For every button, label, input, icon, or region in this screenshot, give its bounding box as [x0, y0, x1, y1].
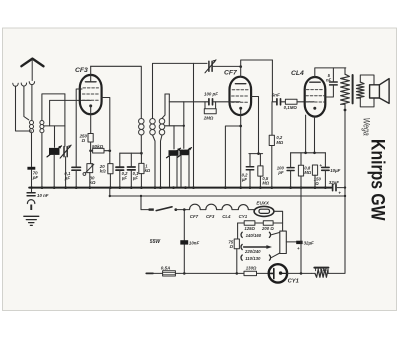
wire cap3 up [119, 153, 121, 167]
coil L2 antenna secondary [40, 120, 44, 132]
antenna terminal cup 1 [13, 83, 18, 86]
wire CL4 top lead [315, 68, 346, 77]
potentiometer 30k box [87, 164, 93, 173]
junction bus u [300, 186, 303, 189]
wire terminal3 down [31, 85, 33, 121]
wire secondary top [360, 75, 374, 85]
wire antenna lead [31, 60, 33, 81]
svg-text:125Ω: 125Ω [244, 226, 255, 231]
CL4 cathode dot [313, 107, 316, 110]
wire L1 bottom to 70pF [31, 133, 33, 167]
selector body [280, 231, 287, 253]
wire to choke [311, 272, 315, 274]
wire pot to bus [89, 173, 91, 188]
junction bus r [259, 186, 262, 189]
CL4 grid dash 3 [306, 101, 324, 103]
wire row feed [120, 152, 142, 154]
resistor 2MOhm [204, 109, 216, 114]
wire 110/130 link [271, 253, 279, 258]
wire CF3 cathode down [90, 107, 92, 134]
wire selector left leg2 [236, 249, 238, 274]
wire heater tap down [183, 210, 185, 274]
antenna symbol [21, 59, 43, 67]
junction rect rail [300, 272, 303, 275]
resistor 20kOhm [108, 164, 113, 174]
svg-text:MΩ: MΩ [304, 170, 311, 175]
CF3 anode plate [85, 81, 96, 83]
junction line2 left [109, 195, 111, 197]
wire 0,1M to CL4 [297, 101, 314, 103]
wire line2 [110, 195, 345, 197]
resistor 1kOhm [139, 163, 144, 173]
svg-text:10µF: 10µF [330, 168, 340, 173]
wire cap4 up [130, 153, 132, 167]
selector socket 110/130 right [269, 255, 270, 260]
capacitor 5nF tone [330, 82, 338, 85]
wire IF2 bottom [153, 135, 156, 188]
wire 0,5M to bus [259, 176, 261, 188]
earth plug cup [27, 200, 34, 204]
wire 20k to bus [109, 174, 111, 188]
svg-text:CF3: CF3 [75, 67, 88, 74]
wire primary top [344, 68, 346, 74]
wire trimmer C1 tap [54, 126, 56, 147]
svg-text:kΩ: kΩ [90, 180, 96, 185]
svg-text:µF: µF [121, 175, 127, 180]
wire selector top [238, 222, 283, 224]
wire gridloop right leg [168, 94, 170, 126]
svg-text:0,5A: 0,5A [161, 265, 171, 270]
ground symbol [24, 216, 39, 225]
svg-text:32µF: 32µF [329, 180, 339, 185]
wire C2 to bus [65, 157, 67, 188]
earth plug pin [30, 205, 32, 211]
svg-text:CL4: CL4 [222, 214, 231, 219]
junction ck 1 [304, 151, 307, 154]
wire 100pF2 up [290, 153, 292, 168]
wire CL4 cathode lead [314, 117, 316, 153]
wire CY1 out [287, 272, 311, 274]
junction CF7 top cap [239, 65, 242, 68]
svg-text:MΩ: MΩ [262, 180, 269, 185]
output transformer primary [341, 74, 350, 104]
junction bus v [314, 186, 317, 189]
junction mains tap [183, 272, 186, 275]
wire 100pF2 to bus [290, 171, 292, 188]
wire 10uF to bus [324, 170, 326, 187]
junction switch right [174, 208, 177, 211]
wire IF trim1 lead [173, 126, 175, 149]
wire 0,1uF to bus [75, 170, 77, 187]
wire 0,2uF up [249, 154, 251, 167]
svg-text:Ω: Ω [229, 244, 234, 249]
svg-text:220/240: 220/240 [244, 249, 261, 254]
capacitor 10nF mains [180, 240, 188, 244]
svg-text:200 Ω: 200 Ω [261, 226, 274, 231]
junction bus g [118, 186, 121, 189]
wire CF7 side stub [251, 97, 259, 154]
svg-text:CL4: CL4 [291, 70, 304, 77]
selector arrow 220/240 [244, 246, 267, 248]
junction line2 drop [140, 195, 142, 197]
junction bus j [154, 186, 157, 189]
selector socket 110/130 left [241, 255, 242, 260]
wire 150 to bus [314, 175, 316, 187]
svg-text:CY1: CY1 [288, 278, 299, 284]
junction bus b [53, 186, 56, 189]
svg-text:CY1: CY1 [239, 214, 248, 219]
capacitor 100pF (CF7 grid) [209, 99, 213, 105]
fuse 0,5A [163, 271, 176, 276]
junction bus l [172, 186, 175, 189]
wire CL4 cathode rail [291, 152, 326, 154]
wire 0,5M up [259, 154, 261, 166]
svg-text:10 nF: 10 nF [37, 193, 49, 198]
wire IF1 bottom [140, 135, 142, 153]
trimmer capacitor IF 2 [178, 148, 192, 158]
wire heater seg4 [232, 209, 238, 211]
wire heater seg1 [176, 209, 190, 211]
selector socket 220/240 left [241, 244, 242, 249]
wire heater lead-in [141, 209, 149, 211]
wire oscillator vertical [64, 94, 66, 146]
dial lamp [254, 206, 274, 216]
junction bus s [270, 186, 273, 189]
svg-text:pF: pF [277, 170, 284, 175]
wire lamp to selector [274, 211, 283, 231]
tube CF7 envelope [230, 77, 252, 115]
wire IF trim2 to bus [181, 155, 189, 188]
junction cathode loop [239, 125, 242, 128]
resistor 0,5MOhm [258, 166, 263, 176]
svg-text:Ω: Ω [81, 138, 86, 143]
junction bus p [239, 186, 242, 189]
svg-text:µF: µF [132, 175, 138, 180]
CF3 grid dash 3 [82, 99, 99, 101]
wire IF trim1 to bus [170, 155, 178, 187]
junction bus k [159, 186, 162, 189]
junction rail buscap [344, 186, 346, 188]
heater CL4 arc [222, 205, 232, 210]
wire grid wire right [213, 101, 240, 103]
wire 0,8M up [300, 153, 302, 165]
svg-text:140/160: 140/160 [246, 233, 262, 238]
heater CF7 arc [190, 204, 201, 209]
coil IF tertiary [159, 118, 165, 135]
wire 1k to bus [140, 174, 142, 188]
CL4 anode plate [310, 81, 320, 83]
wire choke to rail [328, 105, 345, 274]
wire IF2 top riser [153, 63, 208, 118]
heater CF3 arc [206, 204, 217, 209]
wire CL4 g2 lead [305, 115, 307, 153]
wire 140/160 link [271, 232, 279, 234]
wire CF3 top lead [90, 66, 92, 82]
chassis bus [29, 187, 331, 189]
wire bus cap to rail [337, 187, 345, 189]
selector socket 140/160 right [269, 232, 270, 237]
svg-text:Knirps GW: Knirps GW [367, 139, 388, 221]
svg-text:100 pF: 100 pF [204, 92, 218, 97]
wire trim to CF7 cap [212, 65, 241, 67]
tube CL4 envelope [305, 77, 326, 117]
wire rect rail [300, 188, 302, 274]
svg-text:+: + [297, 246, 300, 251]
antenna terminal cup 3 [29, 82, 34, 85]
CL4 grid dash 2 [306, 95, 324, 97]
wire tone bottom [326, 85, 334, 97]
resistor 50kOhm [93, 148, 104, 153]
junction screen node [108, 149, 111, 152]
wire RC node [249, 153, 263, 155]
wire 50k left lead [90, 150, 93, 152]
svg-text:CF3: CF3 [206, 214, 215, 219]
wire 130 to CY1 [257, 272, 269, 274]
svg-text:CF7: CF7 [190, 214, 199, 219]
wire 10uF up [324, 153, 326, 167]
wire 70pF to bus [31, 170, 33, 188]
wire 2M loop right [215, 102, 217, 109]
wire L2 bottom to bus [41, 133, 43, 188]
junction 50k left [89, 149, 92, 152]
junction bus d [75, 186, 78, 189]
wire terminal2 down [24, 86, 29, 120]
junction row-1k [140, 152, 143, 155]
junction bus n [192, 186, 195, 189]
wire 50k right lead [104, 150, 110, 152]
svg-text:5nF: 5nF [272, 92, 280, 97]
capacitor 0,1uF (a) [116, 167, 124, 170]
svg-text:EUXX: EUXX [256, 200, 269, 205]
CF3 grid dash 1 [83, 87, 99, 89]
speaker cone [379, 79, 389, 104]
svg-text:130Ω: 130Ω [246, 266, 257, 271]
resistor 130 Ohm [244, 271, 257, 275]
svg-text:kΩ: kΩ [145, 168, 151, 173]
coil L1 antenna primary [29, 120, 33, 132]
svg-text:10nF: 10nF [189, 240, 200, 245]
svg-text:55W: 55W [150, 239, 162, 245]
wire CF3 screen [102, 98, 110, 150]
capacitor 0,1uF (CF3) [72, 167, 81, 170]
wire bus to 10nF [31, 188, 33, 193]
wire line2 drop to heater [140, 196, 142, 210]
wire L2 top to oscillator [42, 94, 65, 120]
wire C1 to bus [53, 155, 55, 188]
wire screen node down [109, 152, 111, 163]
capacitor 10uF electrolytic [322, 167, 329, 170]
wire IF3 top [162, 94, 165, 118]
svg-text:Ω: Ω [314, 181, 319, 186]
svg-text:110/130: 110/130 [245, 256, 261, 261]
wire heater seg5 [248, 210, 254, 212]
resistor 125 Ohm [244, 221, 255, 225]
svg-text:MΩ: MΩ [276, 140, 283, 145]
wire CF3 pin down [76, 89, 82, 167]
CL4 grid dash 1 [306, 89, 323, 91]
junction primary bottom [344, 109, 347, 112]
rectifier CY1 [269, 264, 287, 282]
resistor 0,1MOhm [285, 99, 297, 104]
CF7 grid dash 2 [232, 95, 249, 97]
wire CF7 cathode [240, 109, 242, 188]
resistor 0,2MOhm [269, 135, 274, 145]
junction bus f [109, 186, 112, 189]
wire L2 tap [44, 125, 65, 127]
capacitor 32uF reservoir [296, 241, 302, 244]
wire 1k up [140, 153, 142, 163]
junction bus e [88, 186, 91, 189]
wire CF7 top lead [241, 60, 273, 77]
svg-text:+: + [338, 191, 341, 196]
heater CY1 arc [238, 205, 248, 210]
wire cap3 to bus [119, 170, 121, 188]
mains stub [146, 272, 153, 274]
potentiometer 30k wiper arrow [83, 173, 86, 176]
svg-text:32µF: 32µF [304, 240, 314, 245]
wire grid wire left [169, 101, 208, 103]
capacitor 10nF ground [27, 193, 35, 196]
junction heater tap [183, 208, 186, 211]
junction IF tap [183, 125, 185, 127]
capacitor 32uF (bus) [333, 185, 336, 191]
wire bus to line2 left [109, 188, 111, 196]
selector socket 140/160 left [241, 232, 242, 237]
variable capacitor C1 (tuning, filled) [47, 146, 62, 157]
CF7 cathode dot [239, 107, 242, 110]
junction bus o [224, 186, 227, 189]
resistor 0,8MOhm [298, 165, 303, 176]
svg-text:µF: µF [241, 177, 247, 182]
wire 0,8M to bus [300, 176, 302, 188]
wire IF3 tap [165, 125, 184, 127]
trimmer capacitor IF 1 [167, 148, 181, 158]
svg-text:50kΩ: 50kΩ [92, 144, 104, 149]
capacitor 0,1uF (b) [128, 167, 136, 170]
wire 0,2M up [271, 102, 273, 135]
speaker driver [370, 85, 380, 98]
coil IF secondary [150, 118, 156, 135]
wire CF7 loop [225, 126, 240, 188]
coil IF primary [139, 118, 145, 135]
junction bus c [64, 186, 67, 189]
wire gridloop top [165, 93, 169, 95]
svg-text:2MΩ: 2MΩ [203, 116, 214, 121]
junction bus i [140, 186, 143, 189]
wire IF3 bottom [161, 135, 163, 188]
svg-text:CF7: CF7 [224, 70, 238, 77]
junction selector mains [236, 272, 239, 275]
capacitor 100pF (CL4) [287, 168, 294, 171]
junction ck 2 [313, 151, 316, 154]
wire tone top [332, 68, 334, 82]
filter resistor hatching [314, 267, 328, 269]
svg-text:Wega: Wega [361, 118, 371, 136]
tube CF3 envelope [80, 75, 102, 114]
resistor 150 Ohm [312, 165, 317, 175]
wire 0,2uF to bus [249, 170, 251, 188]
antenna terminal cup 2 [21, 83, 26, 86]
wire 2M loop left [204, 102, 206, 109]
capacitor 0,2uF [246, 167, 253, 170]
junction rail line2 [344, 195, 346, 197]
svg-text:0,1MΩ: 0,1MΩ [284, 105, 298, 110]
svg-text:pF: pF [32, 175, 39, 180]
junction bus w [324, 186, 327, 189]
switch contact [149, 208, 154, 210]
CF3 cathode dot [89, 104, 92, 107]
switch lever [156, 207, 172, 211]
wire CF7 plate riser [272, 60, 276, 102]
capacitor 5nF coupling [277, 99, 281, 105]
capacitor 70pF [27, 167, 35, 170]
wire stub to fuse [153, 272, 163, 274]
wire secondary bottom [360, 98, 374, 107]
junction bus m [184, 186, 187, 189]
output transformer secondary [357, 82, 365, 98]
svg-text:µF: µF [64, 175, 71, 180]
resistor 200 Ohm [263, 221, 273, 225]
junction bus a [41, 186, 44, 189]
wire 5nF to 0,1M [281, 101, 285, 103]
CF7 grid dash 1 [232, 89, 248, 91]
wire IF2 ground leg [193, 63, 195, 187]
resistor 75 Ohm [234, 239, 239, 249]
resistor 250 Ohm [88, 134, 93, 143]
CF7 anode plate [235, 83, 245, 85]
wire selector out [286, 241, 297, 243]
junction bus t [289, 186, 292, 189]
CF3 grid dash 2 [82, 93, 99, 95]
wire grid riser [50, 100, 91, 126]
wire terminal1 down [16, 86, 32, 131]
junction bus left end [30, 186, 33, 189]
CF7 grid dash 3 [232, 101, 249, 103]
filter choke zigzag [315, 270, 328, 278]
wire IF trim2 lead [183, 102, 185, 149]
junction bus h [130, 186, 133, 189]
trimmer capacitor osc (top) [205, 60, 216, 73]
junction RC feed [257, 152, 260, 155]
junction bus q [249, 186, 252, 189]
wire selector left leg [237, 223, 239, 239]
wire cap4 to bus [130, 170, 132, 188]
wire 0,2M to bus [271, 146, 273, 188]
svg-text:kΩ: kΩ [100, 169, 106, 174]
wire heater seg3 [217, 209, 222, 211]
wire heater seg2 [200, 209, 206, 211]
variable capacitor C2 (tuning) [60, 145, 71, 158]
wire mains to selector [175, 272, 244, 274]
wire 250 to pot [90, 142, 92, 164]
transformer core [352, 75, 354, 103]
wire CF3 anode to IF [91, 66, 142, 118]
